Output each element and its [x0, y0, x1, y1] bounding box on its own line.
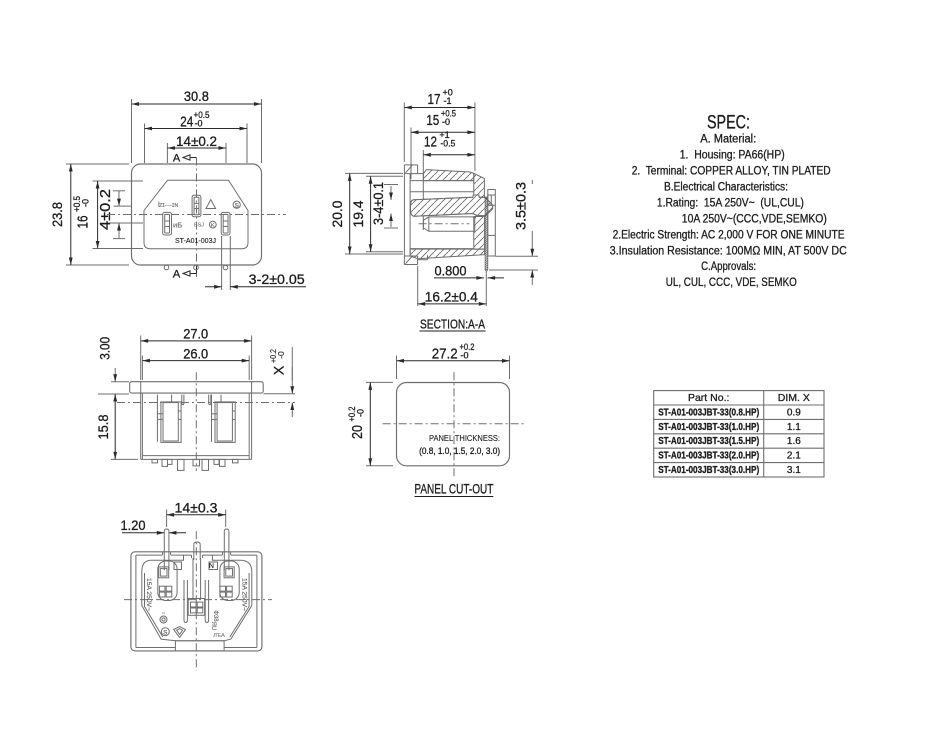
svg-text:16: 16 [76, 216, 92, 229]
svg-text:1.1: 1.1 [787, 422, 801, 433]
svg-text:3.Insulation Resistance: 100MΩ: 3.Insulation Resistance: 100MΩ MIN, AT 5… [610, 245, 847, 257]
svg-text:SECTION:A-A: SECTION:A-A [420, 317, 485, 332]
svg-text:14±0.3: 14±0.3 [175, 500, 218, 515]
svg-text:иБ: иБ [173, 221, 182, 230]
svg-text:ST-A01-003JBT-33(1.5.HP): ST-A01-003JBT-33(1.5.HP) [658, 436, 759, 447]
svg-text:3-2±0.05: 3-2±0.05 [249, 272, 305, 287]
svg-text:3.5±0.3: 3.5±0.3 [513, 182, 528, 230]
svg-text:S: S [235, 202, 240, 209]
svg-text:S: S [163, 629, 168, 636]
svg-text:DIM. X: DIM. X [778, 392, 810, 404]
svg-text:0.9: 0.9 [787, 407, 801, 418]
svg-text:Ф38: Ф38 [212, 610, 218, 622]
svg-text:30.8: 30.8 [184, 88, 209, 104]
svg-text:(0.8, 1.0, 1.5, 2.0, 3.0): (0.8, 1.0, 1.5, 2.0, 3.0) [419, 446, 500, 456]
svg-text:БSJ: БSJ [194, 223, 204, 229]
svg-text:20.0: 20.0 [330, 201, 345, 228]
svg-text:20: 20 [350, 425, 366, 439]
svg-text:1.20: 1.20 [121, 518, 146, 533]
svg-text:26.0: 26.0 [183, 346, 208, 361]
svg-text:3.00: 3.00 [98, 337, 113, 360]
svg-text:ST-A01-003J: ST-A01-003J [175, 236, 216, 245]
svg-text:ST-A01-003JBT-33(1.0.HP): ST-A01-003JBT-33(1.0.HP) [658, 422, 759, 433]
svg-text:16.2±0.4: 16.2±0.4 [425, 289, 478, 304]
svg-text:B.Electrical Characteristics:: B.Electrical Characteristics: [664, 181, 788, 193]
svg-text:27.0: 27.0 [183, 326, 208, 341]
svg-text:-0: -0 [81, 199, 91, 207]
svg-text:3.1: 3.1 [787, 465, 801, 476]
svg-text:24: 24 [180, 115, 193, 131]
svg-text:-0: -0 [195, 119, 203, 129]
svg-text:SPEC:: SPEC: [707, 113, 750, 134]
svg-text:Part No.:: Part No.: [688, 392, 729, 404]
svg-text:ЯU: ЯU [210, 622, 216, 631]
svg-text:A. Material:: A. Material: [700, 134, 756, 146]
svg-text:1.6: 1.6 [787, 436, 801, 447]
svg-text:ST-A01-003JBT-33(3.0.HP): ST-A01-003JBT-33(3.0.HP) [658, 465, 759, 476]
svg-text:-0: -0 [461, 350, 469, 360]
svg-text:ʫɪ―ɪɴ: ʫɪ―ɪɴ [158, 202, 178, 209]
svg-text:27.2: 27.2 [432, 346, 458, 362]
svg-text:-1: -1 [444, 96, 452, 106]
svg-text:K: K [211, 223, 215, 229]
svg-text:A: A [173, 153, 181, 165]
svg-text:1. Housing: PA66(HP): 1. Housing: PA66(HP) [680, 150, 785, 162]
svg-text:ST-A01-003JBT-33(2.0.HP): ST-A01-003JBT-33(2.0.HP) [658, 451, 759, 462]
svg-text:2.1: 2.1 [787, 451, 801, 462]
svg-text:ST-A01-003JBT-33(0.8.HP): ST-A01-003JBT-33(0.8.HP) [658, 407, 759, 418]
svg-text:19.4: 19.4 [351, 200, 366, 227]
svg-text:10A 250V~(CCC,VDE,SEMKO): 10A 250V~(CCC,VDE,SEMKO) [682, 213, 827, 225]
svg-text:2.Electric Strength: AC 2,000: 2.Electric Strength: AC 2,000 V FOR ONE … [613, 229, 845, 241]
svg-text:N: N [209, 563, 214, 570]
svg-text:3-4±0.1: 3-4±0.1 [371, 182, 386, 225]
svg-text:15A 250V~: 15A 250V~ [241, 578, 248, 611]
svg-text:15A 250V~: 15A 250V~ [145, 578, 152, 611]
svg-text:-0: -0 [442, 117, 450, 127]
svg-text:23.8: 23.8 [49, 202, 65, 227]
svg-text:UL, CUL, CCC, VDE, SEMKO: UL, CUL, CCC, VDE, SEMKO [666, 277, 797, 289]
svg-text:2. Terminal: COPPER ALLOY, TI: 2. Terminal: COPPER ALLOY, TIN PLATED [632, 166, 831, 178]
svg-text:4±0.2: 4±0.2 [98, 189, 114, 230]
svg-text:-0.5: -0.5 [440, 139, 455, 149]
svg-text:PANEL CUT-OUT: PANEL CUT-OUT [414, 482, 493, 497]
svg-text:15: 15 [426, 113, 439, 129]
svg-text:PANEL THICKNESS:: PANEL THICKNESS: [429, 433, 500, 443]
svg-text:-0: -0 [276, 351, 286, 359]
svg-text:12: 12 [424, 135, 437, 151]
svg-text:X: X [271, 365, 287, 375]
svg-text:17: 17 [428, 92, 441, 108]
svg-text:A: A [173, 269, 181, 281]
svg-text:ЛΈА: ЛΈА [213, 633, 225, 639]
svg-text:C.Approvals:: C.Approvals: [701, 261, 756, 273]
svg-text:14±0.2: 14±0.2 [176, 133, 217, 149]
svg-text:1.Rating: 15A 250V~ (UL,CUL): 1.Rating: 15A 250V~ (UL,CUL) [657, 197, 804, 209]
svg-text:0.800: 0.800 [435, 263, 467, 278]
svg-text:15.8: 15.8 [96, 415, 111, 440]
svg-text:-0: -0 [356, 409, 366, 417]
